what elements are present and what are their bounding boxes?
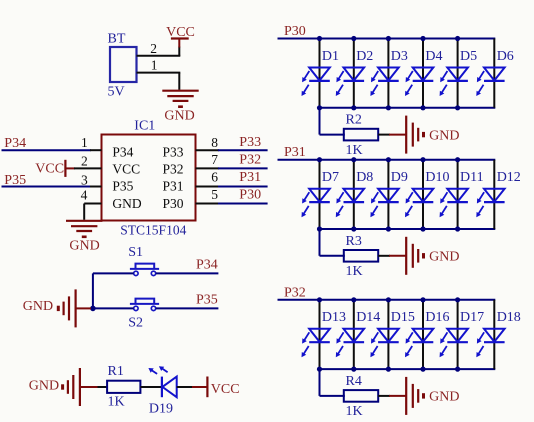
svg-text:P33: P33 — [163, 144, 184, 159]
node dot bottom D9 — [386, 226, 391, 231]
wire battery pin 1 to GND — [137, 73, 181, 90]
svg-text:D8: D8 — [356, 170, 373, 185]
node dot top D2 — [351, 36, 356, 41]
svg-text:VCC: VCC — [166, 25, 195, 40]
wire P31 top bus — [278, 159, 496, 161]
wire R3 to GND — [378, 255, 406, 257]
node dot top D7 — [317, 157, 322, 162]
node dot top D9 — [386, 157, 391, 162]
wire P30 top bus — [278, 38, 496, 40]
svg-text:VCC: VCC — [211, 382, 240, 397]
svg-text:1: 1 — [151, 58, 158, 73]
node dot top D16 — [420, 297, 425, 302]
wire IC pin 7 to P32 — [196, 167, 268, 169]
svg-text:D2: D2 — [356, 49, 373, 64]
svg-text:S1: S1 — [128, 245, 143, 260]
svg-text:P34: P34 — [196, 258, 218, 273]
svg-text:BT: BT — [108, 32, 126, 47]
svg-text:R1: R1 — [108, 364, 124, 379]
svg-text:P31: P31 — [239, 170, 261, 185]
battery BT — [108, 32, 137, 100]
led D4 — [405, 39, 443, 108]
svg-text:2: 2 — [150, 41, 157, 56]
svg-text:D15: D15 — [391, 310, 415, 325]
ground GND (switches) — [23, 289, 91, 327]
wire IC pin 6 to P31 — [196, 186, 268, 188]
power port VCC (top) — [166, 25, 195, 48]
power port VCC (bottom) — [207, 377, 239, 398]
svg-text:7: 7 — [211, 152, 218, 167]
svg-text:1K: 1K — [346, 404, 363, 419]
wire P32 bottom bus — [319, 368, 496, 370]
wire P32 top bus — [278, 299, 496, 301]
svg-text:1K: 1K — [108, 395, 125, 410]
wire junction vertical — [92, 273, 94, 308]
svg-text:GND: GND — [69, 239, 99, 254]
ground GND (bottom left) — [29, 368, 99, 406]
node dot top D15 — [386, 297, 391, 302]
svg-text:R2: R2 — [346, 113, 362, 128]
resistor R3 — [344, 234, 378, 279]
svg-text:VCC: VCC — [35, 162, 64, 177]
node dot bottom D17 — [455, 367, 460, 372]
svg-text:D3: D3 — [391, 49, 408, 64]
node dot bottom D2 — [351, 105, 356, 110]
svg-text:P32: P32 — [239, 152, 261, 167]
node junction dot — [90, 306, 96, 312]
node dot bottom D3 — [386, 105, 391, 110]
node dot top D17 — [455, 297, 460, 302]
led D11 — [440, 160, 484, 229]
svg-text:GND: GND — [429, 390, 459, 405]
ground GND (P30 bank) — [406, 116, 459, 154]
svg-text:GND: GND — [23, 299, 53, 314]
svg-text:6: 6 — [211, 170, 218, 185]
svg-text:P35: P35 — [112, 178, 133, 193]
led D13 — [302, 300, 347, 369]
svg-text:5V: 5V — [108, 85, 125, 100]
node dot bottom D4 — [420, 105, 425, 110]
svg-text:D1: D1 — [322, 49, 339, 64]
svg-text:S2: S2 — [128, 316, 143, 331]
svg-text:STC15F104: STC15F104 — [120, 223, 186, 238]
led D16 — [405, 300, 450, 369]
led D12 — [476, 160, 521, 229]
node dot top D3 — [386, 36, 391, 41]
svg-text:D6: D6 — [497, 49, 514, 64]
wire P31 bottom bus — [319, 228, 496, 230]
wire R4 to GND — [378, 395, 406, 397]
wire S2 to P35 — [156, 307, 219, 309]
svg-text:P31: P31 — [163, 178, 184, 193]
svg-text:P32: P32 — [163, 161, 184, 176]
node dot top D14 — [351, 297, 356, 302]
svg-text:P31: P31 — [284, 145, 306, 160]
ic U1 STC15F104 box — [102, 135, 196, 221]
led D14 — [336, 300, 381, 369]
wire R1 to D19 — [140, 386, 162, 388]
svg-text:D14: D14 — [356, 310, 380, 325]
node dot top D5 — [455, 36, 460, 41]
node dot top D4 — [420, 36, 425, 41]
power port VCC (IC pin 2) — [35, 160, 75, 177]
svg-text:D13: D13 — [322, 310, 346, 325]
led D17 — [440, 300, 485, 369]
wire S1 to P34 — [156, 272, 219, 274]
led D19 — [148, 366, 176, 416]
svg-text:D9: D9 — [391, 170, 408, 185]
svg-text:D4: D4 — [425, 49, 442, 64]
svg-text:P30: P30 — [239, 188, 261, 203]
node dot top D8 — [351, 157, 356, 162]
svg-text:R3: R3 — [346, 234, 362, 249]
node dot bottom D10 — [420, 226, 425, 231]
svg-text:IC1: IC1 — [134, 118, 155, 133]
svg-text:P33: P33 — [239, 135, 261, 150]
wire D19 to VCC — [177, 386, 208, 388]
switch S2 — [128, 299, 159, 331]
svg-text:R4: R4 — [346, 374, 362, 389]
wire bottom bus to R4 — [320, 369, 345, 396]
svg-text:P30: P30 — [163, 196, 184, 211]
wire VCC to IC pin 2 — [74, 167, 102, 169]
wire P34 to IC pin 1 — [2, 149, 102, 151]
svg-text:D10: D10 — [425, 170, 449, 185]
svg-text:P32: P32 — [284, 285, 306, 300]
wire IC pin 8 to P33 — [196, 149, 268, 151]
svg-text:3: 3 — [81, 172, 88, 187]
node dot bottom D5 — [455, 105, 460, 110]
node dot bottom D7 — [317, 226, 322, 231]
led D8 — [336, 160, 374, 229]
node dot bottom D8 — [351, 226, 356, 231]
svg-text:1K: 1K — [346, 143, 363, 158]
node dot bottom D15 — [386, 367, 391, 372]
wire P35 to IC pin 3 — [2, 186, 102, 188]
wire P30 bottom bus — [319, 107, 496, 109]
node dot bottom D16 — [420, 367, 425, 372]
led D7 — [302, 160, 340, 229]
wire bottom bus to R3 — [320, 229, 345, 256]
node dot top D13 — [317, 297, 322, 302]
led D10 — [405, 160, 450, 229]
svg-text:P34: P34 — [4, 136, 26, 151]
svg-text:VCC: VCC — [112, 161, 140, 176]
switch S1 — [128, 245, 159, 275]
svg-text:1: 1 — [81, 135, 88, 150]
svg-text:4: 4 — [81, 188, 88, 203]
svg-text:GND: GND — [429, 128, 459, 143]
node dot top D11 — [455, 157, 460, 162]
svg-text:GND: GND — [429, 250, 459, 265]
wire junction to S2 — [96, 307, 134, 309]
led D6 — [476, 39, 514, 108]
svg-text:1K: 1K — [346, 264, 363, 279]
led D18 — [476, 300, 521, 369]
ground GND (below battery) — [162, 91, 198, 124]
svg-text:D17: D17 — [460, 310, 484, 325]
wire bottom bus to R2 — [320, 108, 345, 135]
svg-text:GND: GND — [112, 196, 141, 211]
ground GND (P32 bank) — [406, 377, 459, 415]
svg-text:2: 2 — [81, 154, 88, 169]
resistor R4 — [344, 374, 378, 419]
svg-text:P35: P35 — [196, 292, 218, 307]
wire battery pin 2 to VCC — [137, 47, 181, 56]
node dot top D10 — [420, 157, 425, 162]
svg-text:D19: D19 — [149, 401, 173, 416]
wire R2 to GND — [378, 134, 406, 136]
node dot bottom D13 — [317, 367, 322, 372]
svg-text:8: 8 — [211, 135, 218, 150]
svg-text:P34: P34 — [112, 144, 133, 159]
resistor R1 — [98, 364, 141, 410]
ground GND (IC pin 4) — [66, 221, 102, 254]
led D2 — [336, 39, 374, 108]
svg-text:P30: P30 — [284, 24, 306, 39]
svg-text:5: 5 — [211, 187, 218, 202]
led D3 — [370, 39, 408, 108]
node dot top D1 — [317, 36, 322, 41]
svg-text:GND: GND — [29, 379, 59, 394]
svg-text:D18: D18 — [497, 310, 521, 325]
led D1 — [302, 39, 340, 108]
svg-text:D5: D5 — [460, 49, 477, 64]
svg-text:D11: D11 — [460, 170, 484, 185]
svg-text:D12: D12 — [497, 170, 521, 185]
svg-text:GND: GND — [164, 108, 194, 123]
svg-text:D7: D7 — [322, 170, 339, 185]
ground GND (P31 bank) — [406, 237, 459, 275]
led D9 — [370, 160, 408, 229]
resistor R2 — [344, 113, 378, 158]
node dot bottom D11 — [455, 226, 460, 231]
node dot bottom D1 — [317, 105, 322, 110]
led D5 — [440, 39, 478, 108]
node dot bottom D14 — [351, 367, 356, 372]
wire IC pin 4 to GND — [84, 204, 101, 220]
svg-text:D16: D16 — [425, 310, 449, 325]
wire IC pin 5 to P30 — [196, 203, 268, 205]
wire GND junction to S1 — [93, 272, 134, 274]
led D15 — [370, 300, 415, 369]
